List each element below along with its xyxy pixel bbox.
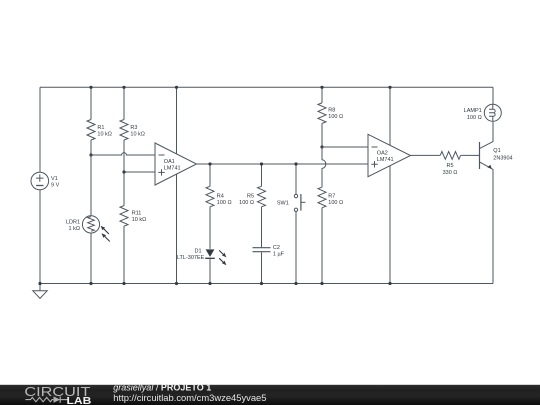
svg-text:V1: V1 [51,176,58,182]
svg-text:100 Ω: 100 Ω [328,200,343,206]
svg-text:10 kΩ: 10 kΩ [132,217,147,223]
wire OA1 output bus with hop [197,163,369,165]
svg-text:1 µF: 1 µF [273,251,285,257]
junction bottom rail R7 [320,282,323,285]
logo diode [54,396,70,402]
svg-text:100 Ω: 100 Ω [328,114,343,120]
resistor R4 [206,186,214,207]
resistor R11 [120,206,128,227]
label R4 value [217,193,232,205]
junction bottom rail D1 [208,282,211,285]
wire left column upper [39,87,41,172]
svg-text:R1: R1 [97,125,104,131]
svg-text:R3: R3 [130,125,137,131]
junction output R5 [260,162,263,165]
wire noninverting input OA1 [124,171,155,173]
wire column R3 upper [123,87,125,119]
junction bottom rail C2 [260,282,263,285]
label LAMP1 value [464,108,482,121]
junction output R4 [208,162,211,165]
svg-text:10 kΩ: 10 kΩ [97,131,112,137]
op-amp OA1 [155,143,197,185]
label OA2 [377,150,394,163]
lamp LAMP1 [484,104,501,121]
wire C2 to bottom rail [261,252,263,283]
wire column R1 upper [90,87,92,119]
svg-text:LAMP1: LAMP1 [464,108,482,114]
junction top rail OA1 pin [175,86,178,89]
wire OA2 output [411,154,441,156]
label R5 value [239,193,254,205]
footer bar [0,385,540,405]
svg-text:330 Ω: 330 Ω [443,170,458,176]
wire LDR to bottom rail [90,233,92,284]
svg-text:Q1: Q1 [493,148,500,154]
wire OA2 Vplus pin [389,87,391,145]
resistor R8 [318,103,326,124]
label R7 value [328,193,343,206]
wire inverting input OA2 [322,146,368,148]
svg-text:LTL-307EE: LTL-307EE [177,255,205,261]
junction top rail R3 [122,86,125,89]
wire OA1 Vminus pin [176,174,178,283]
svg-text:C2: C2 [273,245,280,251]
wire node to R7 [322,147,326,187]
resistor R1 [87,120,95,141]
wire right drop to lamp [492,87,494,104]
footer title text [113,383,211,393]
junction bottom rail SW1 [294,282,297,285]
switch SW1 [294,194,305,212]
svg-text:D1: D1 [194,248,201,254]
svg-text:2N3904: 2N3904 [493,156,512,162]
svg-text:LAB: LAB [67,396,92,405]
svg-text:100 Ω: 100 Ω [217,200,232,206]
junction node R1/LDR [89,153,92,156]
logo resistor squiggle [25,397,53,401]
junction top rail R8 [320,86,323,89]
resistor R5 330 [440,152,460,160]
capacitor C2 [253,248,271,252]
junction top rail R1 [89,86,92,89]
label R1 value [97,125,112,137]
wire D1 to bottom rail [209,259,211,284]
wire column R4 upper [209,164,211,186]
svg-text:LM741: LM741 [377,157,394,163]
label Q1 value [493,148,512,162]
wire R7 to bottom rail [321,208,323,284]
label R5 330 value [443,163,458,176]
transistor Q1 [480,122,494,284]
label SW1 [277,200,289,206]
label D1 value [177,248,205,261]
svg-text:http://circuitlab.com/cm3wze45: http://circuitlab.com/cm3wze45yvae5 [113,392,266,403]
wire top rail [40,86,493,88]
wire column R8 upper [321,87,323,103]
logo CIRCUIT text [24,384,90,399]
junction output SW1 [294,162,297,165]
resistor R5 100 [258,186,266,207]
wire R8 to node [321,123,323,147]
wire OA2 Vminus pin [389,166,391,284]
photoresistor LDR1 [82,216,109,242]
wire R5 to Q1 base [461,154,480,156]
wire inverting input OA1 with hop [91,153,155,155]
svg-text:R5: R5 [446,163,453,169]
svg-text:R7: R7 [328,193,335,199]
label C2 value [273,245,285,257]
wire OA1 Vplus pin [176,87,178,154]
junction bottom rail R11 [122,282,125,285]
label R8 value [328,108,343,120]
wire left column lower [39,190,41,284]
wire R1 to node [90,140,92,155]
op-amp OA2 [368,134,411,176]
footer url text [113,392,266,403]
svg-text:SW1: SW1 [277,200,289,206]
wire R11 to bottom rail [123,226,125,283]
svg-text:9 V: 9 V [51,183,60,189]
logo LAB text [67,396,92,405]
svg-text:OA2: OA2 [377,150,388,156]
svg-text:R8: R8 [328,108,335,114]
svg-text:R5: R5 [247,193,254,199]
label OA1 [164,159,181,172]
LED D1 [205,249,226,265]
ground [33,284,47,299]
junction node R8/R7 [320,145,323,148]
svg-text:LDR1: LDR1 [66,219,80,225]
svg-text:10 kΩ: 10 kΩ [130,131,145,137]
svg-text:R4: R4 [217,193,224,199]
svg-text:R11: R11 [132,210,142,216]
voltage source V1 [31,172,49,190]
label R11 value [132,210,147,223]
wire bottom rail [40,283,493,285]
wire SW1 to bottom rail [295,212,297,284]
label R3 value [130,125,145,137]
junction bottom rail OA1 pin [175,282,178,285]
wire column SW1 upper [295,164,297,194]
label V1 value [51,176,60,189]
junction top rail OA2 pin [388,86,391,89]
junction bottom rail LDR [89,282,92,285]
junction node plus input [122,170,125,173]
svg-text:100 Ω: 100 Ω [239,200,254,206]
wire R4 to D1 [209,207,211,249]
wire R3 to R11 [123,140,125,206]
svg-text:LM741: LM741 [164,166,181,172]
resistor R3 [120,120,128,141]
wire column R5 upper [261,164,263,186]
wire node to LDR [90,155,92,216]
label LDR1 value [66,219,80,232]
svg-text:100 Ω: 100 Ω [467,115,482,121]
junction bottom rail ground [38,282,41,285]
wire R5 to C2 [261,207,263,247]
svg-text:OA1: OA1 [164,159,175,165]
junction bottom rail OA2 pin [388,282,391,285]
resistor R7 [318,187,326,208]
svg-text:1 kΩ: 1 kΩ [69,226,80,232]
